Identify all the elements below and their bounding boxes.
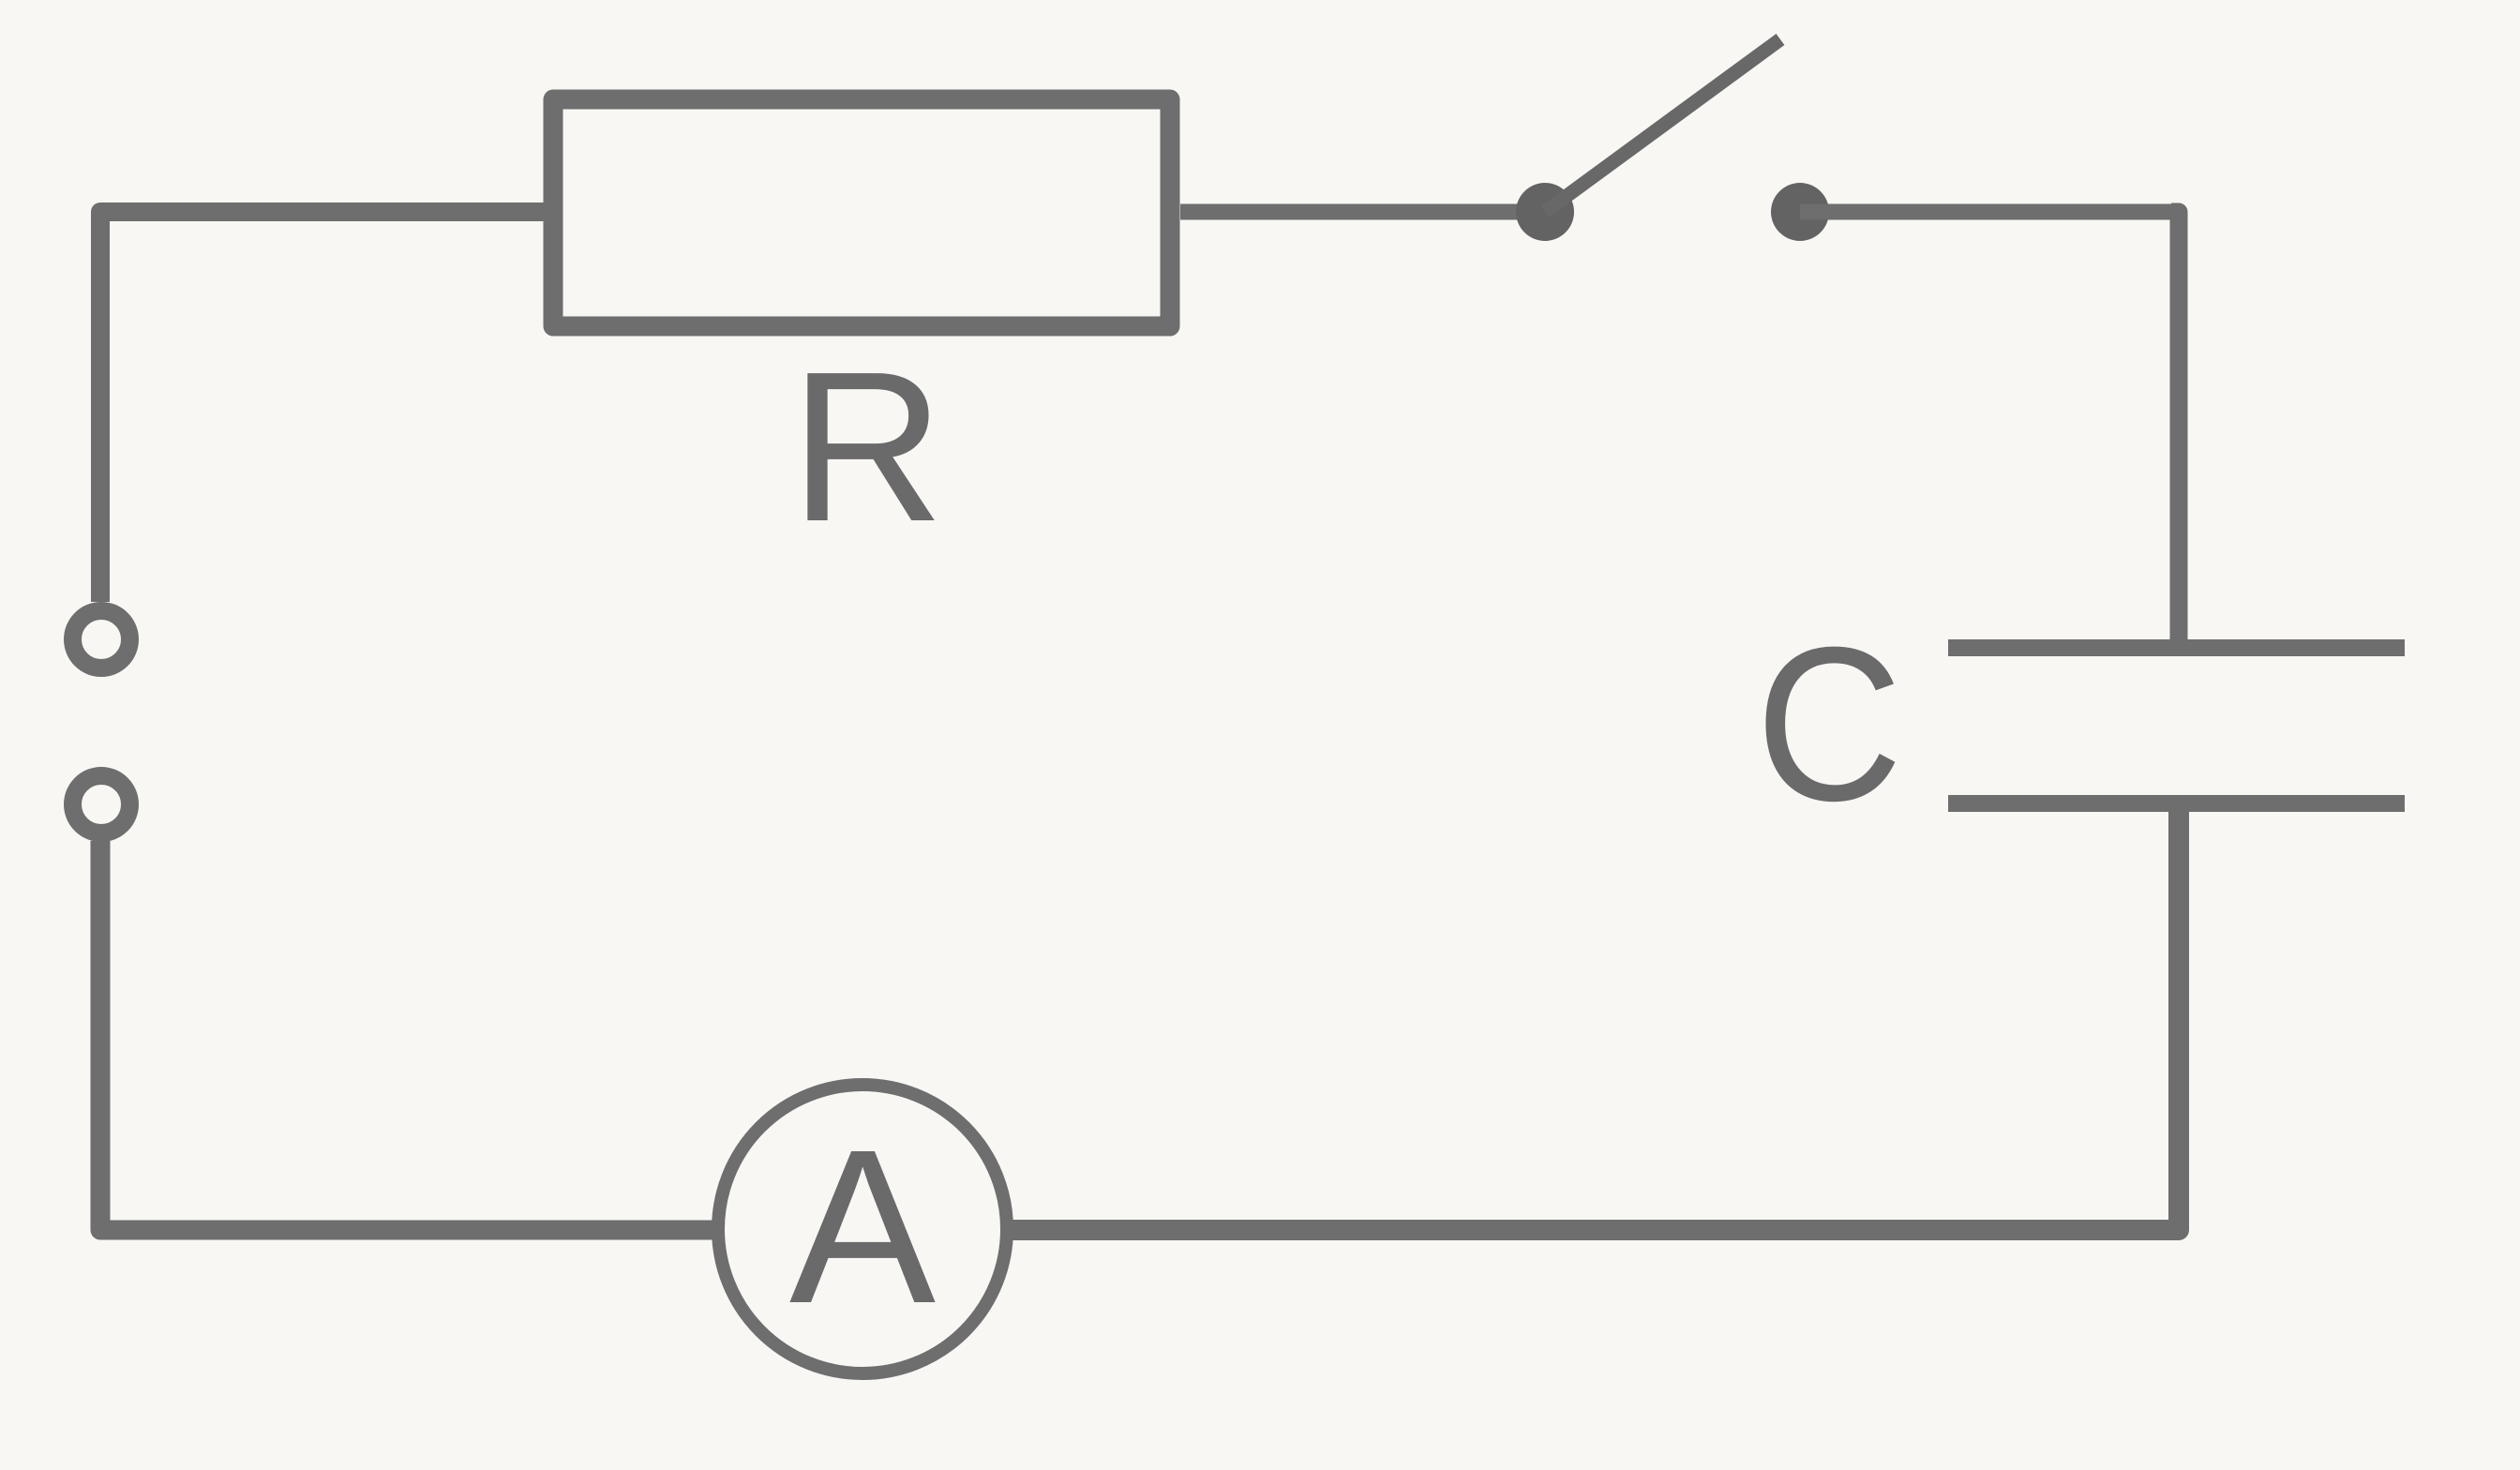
ammeter A (circle)	[718, 1085, 1007, 1373]
svg-text:A: A	[789, 1103, 936, 1349]
capacitor C bottom plate	[1948, 795, 2405, 812]
resistor R (box)	[553, 99, 1170, 326]
wire: resistor to switch left contact	[1180, 204, 1545, 220]
svg-text:C: C	[1755, 601, 1902, 847]
switch left contact dot	[1516, 183, 1574, 241]
capacitor C top plate	[1948, 639, 2405, 656]
switch lever	[1545, 39, 1780, 212]
wire: left vertical + top-left run into resistor	[100, 212, 546, 602]
svg-text:R: R	[790, 328, 945, 566]
wire: ammeter to bottom-left corner and up to lower terminal	[100, 841, 719, 1230]
wire: switch to top-right corner and down to capacitor	[1800, 204, 2171, 220]
switch right contact dot	[1771, 183, 1829, 241]
terminal (lower open circle)	[73, 776, 130, 833]
terminal (upper open circle)	[73, 611, 130, 668]
wire: capacitor down to bottom-right corner and left to ammeter	[1006, 812, 2179, 1230]
